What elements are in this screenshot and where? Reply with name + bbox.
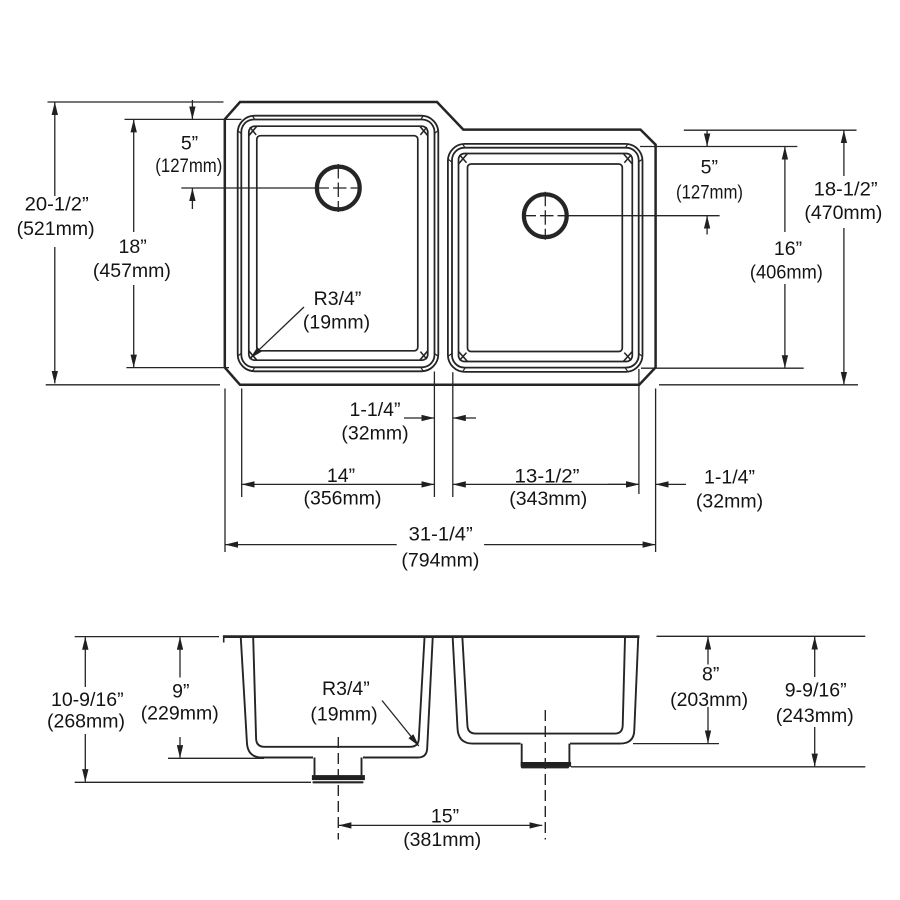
svg-text:R3/4”: R3/4” bbox=[314, 288, 362, 310]
ext: left bowl rim bottom bbox=[126, 367, 229, 369]
ext: outer bottom edge, left bbox=[46, 384, 220, 386]
ext: right drain centerline bbox=[567, 215, 720, 217]
dim 14 line bbox=[242, 483, 434, 485]
dim 31-1/4 right segment bbox=[484, 544, 655, 546]
section: left drain centerline bbox=[337, 737, 339, 840]
section: left drain flange bbox=[312, 775, 365, 780]
section: right drain centerline bbox=[544, 710, 546, 840]
right bowl rim outer bbox=[448, 144, 643, 372]
right bowl rim inner bbox=[459, 154, 633, 362]
dim 5 left top arrow bbox=[191, 100, 193, 119]
leader R3/4 top view bbox=[251, 307, 305, 358]
dim 18 top arrow bbox=[133, 120, 135, 232]
ext: vertical at x=225 bbox=[224, 389, 226, 553]
ext: right bowl rim bottom bbox=[641, 367, 804, 369]
ext: vertical at x=452.8 bbox=[452, 372, 454, 497]
svg-text:(794mm): (794mm) bbox=[401, 550, 479, 572]
ext: vertical at x=638.9 bbox=[638, 369, 640, 494]
left drain crosshair bbox=[337, 164, 339, 212]
svg-text:5”: 5” bbox=[701, 157, 718, 179]
section: right drain stub sides bbox=[522, 744, 570, 762]
section dimension lines with arrows bbox=[85, 637, 814, 826]
ext: 10-9/16 bottom bbox=[75, 781, 311, 783]
dim 5 left bottom arrow bbox=[191, 188, 193, 209]
dim 18-1/2 bottom arrow bbox=[843, 228, 845, 384]
right bowl corner diagonals bbox=[459, 154, 633, 362]
svg-text:(356mm): (356mm) bbox=[303, 488, 381, 510]
svg-text:10-9/16”: 10-9/16” bbox=[51, 689, 124, 711]
dim 9-9/16 bottom arrow bbox=[814, 727, 816, 766]
svg-text:16”: 16” bbox=[774, 238, 802, 260]
ext: deck level right bbox=[657, 635, 866, 637]
svg-text:31-1/4”: 31-1/4” bbox=[409, 524, 473, 546]
ext: 9-9/16 bottom bbox=[571, 766, 865, 768]
right bowl rim mid bbox=[452, 148, 639, 368]
svg-text:(243mm): (243mm) bbox=[776, 705, 854, 727]
section: left bowl inner surface bbox=[253, 638, 424, 747]
section: left drain stub sides bbox=[315, 758, 362, 776]
dim 13-1/2 line bbox=[453, 483, 638, 485]
svg-text:9-9/16”: 9-9/16” bbox=[785, 680, 847, 702]
svg-text:(19mm): (19mm) bbox=[303, 312, 370, 334]
svg-text:1-1/4”: 1-1/4” bbox=[704, 467, 755, 489]
dim 5 right top arrow bbox=[706, 131, 708, 147]
ext: deck level left bbox=[75, 636, 219, 638]
dim 9-9/16 top arrow bbox=[814, 637, 816, 677]
top view dimension texts bbox=[17, 133, 883, 572]
dim 18 bottom arrow bbox=[133, 285, 135, 367]
svg-text:18”: 18” bbox=[119, 236, 147, 258]
dim 9 bottom arrow bbox=[179, 737, 181, 758]
svg-text:18-1/2”: 18-1/2” bbox=[814, 179, 878, 201]
right bowl bottom outline bbox=[468, 164, 623, 352]
svg-text:(457mm): (457mm) bbox=[93, 260, 171, 282]
svg-text:(127mm): (127mm) bbox=[155, 155, 222, 177]
dim 8 top arrow bbox=[707, 637, 709, 665]
ext: vertical at x=241.7 bbox=[241, 389, 243, 498]
svg-text:(381mm): (381mm) bbox=[403, 829, 481, 851]
section: right bowl inner surface bbox=[462, 638, 625, 734]
left bowl rim outer bbox=[238, 116, 439, 372]
right drain crosshair bbox=[544, 192, 546, 240]
right bowl corner spokes bbox=[460, 155, 632, 361]
svg-text:(229mm): (229mm) bbox=[141, 703, 219, 725]
svg-text:15”: 15” bbox=[431, 806, 459, 828]
dim 10-9/16 top arrow bbox=[84, 637, 86, 687]
section: left bowl outer shell right part bbox=[363, 638, 433, 758]
ext: right bowl rim top bbox=[640, 146, 797, 148]
svg-text:1-1/4”: 1-1/4” bbox=[350, 399, 401, 421]
svg-text:(127mm): (127mm) bbox=[676, 182, 743, 204]
ext: outer top edge, right bbox=[684, 129, 857, 131]
svg-text:(32mm): (32mm) bbox=[696, 491, 763, 513]
dim 16 top arrow bbox=[784, 147, 786, 232]
ext: outer top edge, left bbox=[48, 101, 224, 103]
ext: vertical at x=655.6 bbox=[655, 389, 657, 553]
svg-text:13-1/2”: 13-1/2” bbox=[515, 466, 580, 488]
svg-text:5”: 5” bbox=[181, 133, 198, 155]
top view: sink outer outline bbox=[225, 102, 656, 385]
svg-text:(343mm): (343mm) bbox=[509, 488, 587, 510]
left bowl corner spokes bbox=[250, 127, 427, 359]
svg-text:R3/4”: R3/4” bbox=[322, 678, 370, 700]
section view: deck left end tick bbox=[223, 635, 225, 642]
svg-text:(521mm): (521mm) bbox=[17, 218, 95, 240]
left bowl corner rim ticks bbox=[238, 116, 438, 371]
ext: 9in bottom bbox=[168, 757, 264, 759]
svg-text:8”: 8” bbox=[702, 664, 719, 686]
dim 16 bottom arrow bbox=[784, 284, 786, 368]
section view: deck line bbox=[224, 635, 640, 638]
dim 9 top arrow bbox=[179, 637, 181, 677]
dim 31-1/4 left segment bbox=[225, 544, 396, 546]
left bowl corner diagonals bbox=[249, 126, 428, 360]
dim 1-1/4 center right arrow bbox=[453, 417, 476, 419]
top view dimension lines with arrows bbox=[55, 100, 844, 545]
left drain circle bbox=[317, 167, 360, 210]
svg-text:(19mm): (19mm) bbox=[310, 704, 377, 726]
dim 5 right bottom arrow bbox=[706, 216, 708, 234]
svg-text:(32mm): (32mm) bbox=[341, 423, 408, 445]
svg-text:14”: 14” bbox=[327, 465, 355, 487]
left bowl rim mid bbox=[241, 120, 434, 368]
dim 1-1/4 right right arrow bbox=[656, 483, 686, 485]
dim 8 bottom arrow bbox=[707, 707, 709, 743]
dim 1-1/4 center left arrow bbox=[404, 417, 434, 419]
ext: left bowl rim top bbox=[125, 118, 242, 120]
dim 18-1/2 top arrow bbox=[843, 131, 845, 176]
section dimension texts bbox=[47, 664, 854, 852]
top view dimension extension lines bbox=[46, 102, 858, 552]
svg-text:(268mm): (268mm) bbox=[47, 711, 125, 733]
section: right bowl outer shell right part bbox=[570, 638, 638, 744]
dim 20-1/2 top arrow bbox=[54, 102, 56, 196]
section: left bowl outer shell left part bbox=[241, 638, 313, 758]
section dimension extension lines bbox=[75, 636, 866, 782]
svg-text:20-1/2”: 20-1/2” bbox=[25, 194, 89, 216]
right drain circle bbox=[524, 194, 567, 237]
ext: left drain centerline bbox=[181, 187, 317, 189]
dim 15 line bbox=[339, 824, 542, 826]
svg-text:9”: 9” bbox=[172, 681, 189, 703]
dim 10-9/16 bottom arrow bbox=[84, 734, 86, 782]
left bowl bottom outline bbox=[257, 136, 418, 351]
ext: 8in bottom bbox=[633, 743, 719, 745]
leader R3/4 section bbox=[382, 701, 419, 747]
ext: outer bottom edge, right bbox=[659, 384, 858, 386]
section: right bowl outer shell left part bbox=[453, 638, 521, 744]
svg-text:(203mm): (203mm) bbox=[670, 689, 748, 711]
left bowl rim inner bbox=[249, 126, 428, 360]
ext: vertical at x=434.4 bbox=[433, 372, 435, 498]
right bowl corner rim ticks bbox=[448, 144, 642, 371]
dim 20-1/2 bottom arrow bbox=[54, 247, 56, 383]
svg-text:(406mm): (406mm) bbox=[750, 262, 823, 284]
dim 1-1/4 right left arrow bbox=[608, 483, 639, 485]
section: right drain flange bbox=[521, 762, 572, 767]
svg-text:(470mm): (470mm) bbox=[804, 202, 882, 224]
